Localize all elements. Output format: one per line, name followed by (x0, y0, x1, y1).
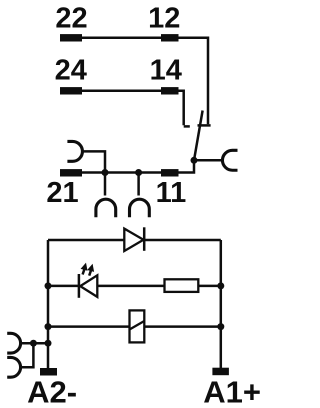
diode cathode bar (143, 227, 146, 251)
coil K1 (130, 310, 145, 342)
svg-text:22: 22 (55, 3, 87, 35)
wire top branch right (144, 239, 221, 242)
node pivot (191, 157, 198, 164)
wire right rail (220, 240, 223, 369)
svg-text:21: 21 (46, 177, 78, 209)
wire socket A2 lower (21, 343, 34, 367)
node socket row mid (30, 340, 37, 347)
wire socket 21 to bus (82, 151, 105, 172)
terminal 11 (161, 169, 179, 176)
terminal 21 (60, 169, 82, 176)
wire coil to rail (144, 325, 221, 328)
pin stub 1 (104, 173, 107, 196)
wire coil row left (48, 325, 130, 328)
pin stub 2 (137, 173, 140, 196)
terminal A1 (212, 368, 229, 376)
LED arrow 1 (83, 270, 85, 275)
socket A2 upper (7, 333, 20, 353)
node LED row right (217, 282, 224, 289)
LED cathode bar (78, 274, 81, 298)
node junction 21 (102, 169, 109, 176)
terminal A2 (40, 368, 57, 376)
wire socket row (21, 342, 48, 345)
socket A2 lower (7, 357, 20, 377)
svg-text:A2-: A2- (27, 374, 77, 408)
terminal 24 (60, 87, 82, 94)
wire LED row left (48, 285, 79, 288)
LED arrow 2 (89, 271, 91, 276)
wire 24 to 14 (82, 90, 161, 93)
svg-text:12: 12 (148, 3, 180, 35)
wire 11 to pivot (179, 160, 195, 172)
socket contact 21 (67, 141, 82, 161)
wire 12 to NC contact (179, 38, 209, 124)
socket dome 1 (96, 199, 116, 217)
diode V1 (124, 229, 143, 251)
contact lever (194, 111, 203, 161)
svg-text:14: 14 (150, 55, 182, 87)
LED triangle (80, 275, 97, 297)
wire 14 to NO contact (179, 91, 184, 126)
svg-text:A1+: A1+ (203, 374, 261, 408)
wire left rail (47, 240, 50, 369)
terminal 22 (60, 34, 82, 41)
terminal 14 (161, 87, 179, 94)
svg-text:24: 24 (55, 55, 87, 87)
node junction 11 (135, 169, 142, 176)
NC contact tip (198, 124, 211, 127)
wire pivot to socket 11 (194, 159, 223, 162)
wire resistor to rail (198, 285, 221, 288)
wire LED to resistor (97, 285, 164, 288)
socket contact (movable pole) (222, 150, 237, 170)
node coil row right (217, 323, 224, 330)
wire 21 bus (82, 171, 161, 174)
node LED row left (45, 282, 52, 289)
resistor R1 (165, 279, 199, 292)
svg-text:11: 11 (156, 177, 187, 209)
terminal 12 (161, 34, 179, 41)
coil slash (130, 321, 145, 330)
socket dome 2 (130, 199, 150, 217)
node coil row left (45, 323, 52, 330)
NO contact tip (184, 125, 190, 128)
wire top branch left (48, 239, 124, 242)
wire 22 to 12 (82, 37, 161, 40)
node socket row rail (45, 340, 52, 347)
